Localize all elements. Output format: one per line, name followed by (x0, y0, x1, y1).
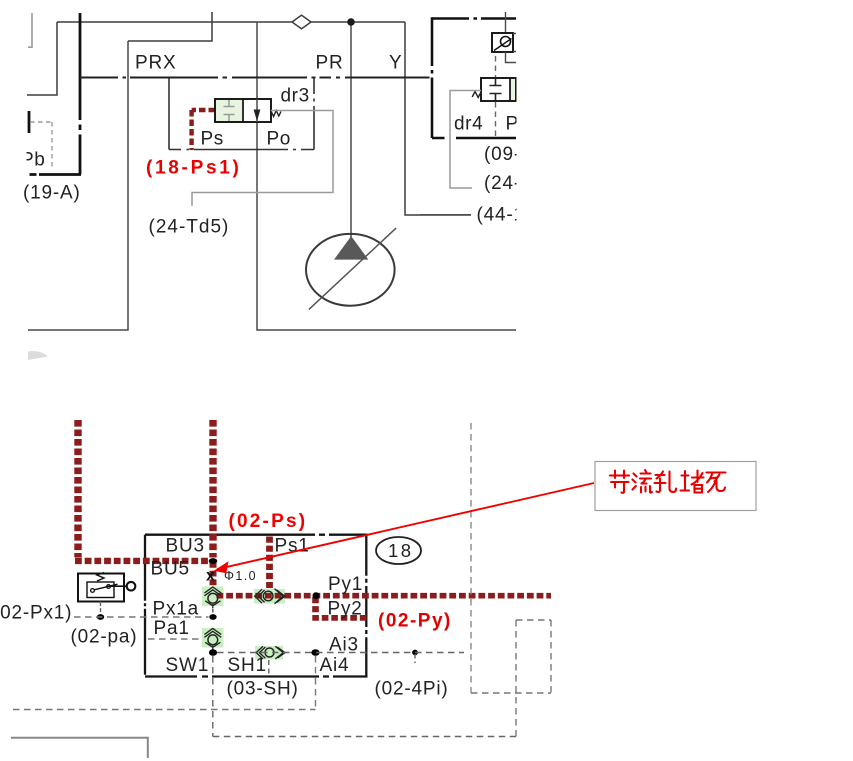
green highlight check3 (202, 628, 224, 648)
valve right-cell flow line + arrow (256, 99, 258, 122)
green highlight check2 (254, 589, 285, 604)
wire valve output vertical x257 (257, 22, 516, 330)
red supply BU5 vertical + corner (74, 420, 81, 557)
svg-text:Ps1: Ps1 (275, 536, 310, 557)
wire top manifold horizontal (57, 21, 405, 23)
red orifice segment below junction (210, 562, 217, 587)
wire stub x212 (128, 12, 212, 41)
svg-text:x: x (206, 568, 215, 585)
wire thick bus bottom horizontal (30, 173, 82, 176)
svg-text:Py1: Py1 (328, 574, 363, 595)
white crop cover right side (517, 0, 853, 420)
node junction dot (347, 18, 355, 26)
svg-text:(02-4Pi): (02-4Pi) (375, 679, 449, 700)
pump variable displacement diagonal (309, 228, 396, 309)
annotation leader red arrow line (217, 483, 594, 569)
block 18 frame top (145, 534, 368, 536)
node subblock dash-dot boundary (168, 78, 170, 150)
wire gray drain dr4 (450, 91, 481, 189)
svg-text:(24-Td5): (24-Td5) (149, 217, 230, 238)
pressure switch contacts (91, 589, 95, 593)
char 节 (610, 471, 629, 493)
annotation callout box (595, 462, 756, 511)
red Py1 output row (217, 593, 552, 599)
svg-text:Φ1.0: Φ1.0 (224, 569, 257, 583)
node junction dot Px1a-left (97, 614, 104, 620)
wire thick bus x80 (79, 13, 82, 175)
pressure switch spring zigzag (97, 573, 104, 582)
right block dash-dot frame (432, 17, 516, 20)
block 18 frame left (144, 535, 146, 677)
svg-text:PR: PR (316, 53, 344, 74)
wire right drop to (44 leader (405, 22, 471, 215)
svg-text:(02-Ps): (02-Ps) (229, 511, 308, 532)
red Ps1 vertical (266, 537, 273, 589)
pressure switch terminal ring (127, 582, 136, 591)
annotation text 节流孔堵死 (hand-drawn strokes) (610, 470, 726, 493)
wire stub Pb lead (28, 111, 31, 133)
wire dashed Ai row (217, 652, 464, 654)
char 流 (633, 470, 653, 493)
wire dashed long return row (13, 709, 316, 711)
check valve diamond (292, 15, 311, 29)
pressure sensor box (492, 33, 513, 52)
node junction dot Ai3 (311, 649, 319, 656)
svg-text:SH1: SH1 (228, 655, 267, 676)
char 孔 (655, 472, 677, 493)
valve dr4 spring (472, 92, 481, 98)
wire leader to (44 (420, 214, 471, 216)
svg-text:dr4: dr4 (454, 114, 483, 135)
valve dr4 orifice symbol (490, 79, 502, 100)
op reducing valve body (215, 99, 271, 122)
wire dashed tall right vertical (470, 423, 472, 693)
wire dashed SH1 stub (268, 660, 270, 676)
node junction dot BU3 (209, 558, 218, 564)
wire switch lead down (100, 602, 102, 607)
svg-text:(02-Px1): (02-Px1) (0, 603, 72, 624)
check valve 3 symbol (204, 629, 221, 638)
block 18 frame right (365, 535, 367, 677)
pump triangle (334, 236, 368, 260)
wire pump suction x351 (350, 22, 352, 240)
wire dashed Px1a line (74, 616, 209, 618)
wire PRX pilot dash-dot main line (80, 76, 430, 78)
svg-text:(19-A): (19-A) (23, 183, 81, 204)
svg-text:(03-SH): (03-SH) (227, 679, 299, 700)
red Py2 branch (312, 597, 319, 615)
svg-text:(02-pa): (02-pa) (71, 627, 138, 648)
char 堵 (681, 471, 704, 493)
green highlight check4 (255, 646, 283, 660)
svg-text:Po: Po (267, 129, 291, 150)
svg-text:dr3: dr3 (281, 86, 310, 107)
TOP-SECTION (11, 420, 551, 758)
svg-text:Py2: Py2 (328, 599, 363, 620)
wire dashed SW1 down (212, 656, 214, 737)
svg-text:SW1: SW1 (166, 655, 210, 676)
char 死 (707, 473, 726, 493)
wire gray corner bottom-left (11, 738, 148, 758)
svg-text:Y: Y (389, 53, 402, 74)
pump circle (306, 234, 395, 306)
wire top-left L drop (27, 22, 57, 95)
red supply BU3 vertical (209, 420, 216, 558)
wire dashed check1 to node (212, 609, 214, 615)
svg-text:Px1a: Px1a (153, 599, 200, 620)
wire dashed Ai3 down (315, 656, 317, 710)
wire dashed pilot line dr4 (495, 56, 497, 77)
svg-text:PRX: PRX (135, 53, 176, 74)
node junction dot SW1 (209, 649, 217, 656)
wire gray stub top-left (28, 13, 32, 47)
wire long left vertical x128 (28, 41, 128, 330)
check valve 4 symbol (256, 646, 265, 659)
node circle (18) (376, 537, 421, 564)
decorative swoosh (28, 351, 48, 360)
valve dr4 body (481, 78, 516, 101)
wire sensor feed vertical (505, 12, 507, 37)
wire dashed right riser (515, 620, 517, 737)
wire gray drain to 24-Td5 (192, 111, 333, 207)
block 18 frame bottom (145, 675, 368, 677)
valve spring dr3 (271, 111, 281, 117)
check valve 2 symbol (255, 589, 265, 603)
pressure switch inner box (87, 582, 114, 598)
svg-text:Ai3: Ai3 (329, 635, 359, 656)
node junction dot Py (313, 592, 320, 599)
wire dashed bottom row (213, 736, 516, 738)
svg-text:Pa1: Pa1 (154, 618, 190, 639)
svg-text:BU3: BU3 (166, 536, 205, 557)
resistor red pilot line Ps (plugged) (192, 110, 215, 150)
svg-text:BU5: BU5 (151, 559, 190, 580)
svg-text:Ps: Ps (201, 129, 224, 150)
pressure switch outer box (78, 574, 124, 602)
valve left-cell orifice symbol (224, 100, 235, 121)
check valve 1 symbol (204, 587, 221, 596)
svg-text:Ai4: Ai4 (320, 655, 350, 676)
wire dashed Pb branch (30, 122, 52, 170)
green highlight check1 (202, 587, 224, 607)
wire dashed Pa1 leader (148, 638, 202, 640)
svg-text:18: 18 (388, 540, 414, 561)
svg-text:(18-Ps1): (18-Ps1) (146, 158, 242, 179)
node junction dot 02-4Pi (412, 650, 418, 656)
svg-text:(02-Py): (02-Py) (378, 611, 452, 632)
wire dashed 02-4Pi stub (414, 654, 416, 663)
wire sensor drain L (506, 52, 517, 63)
node junction dot Px1a (209, 614, 216, 620)
